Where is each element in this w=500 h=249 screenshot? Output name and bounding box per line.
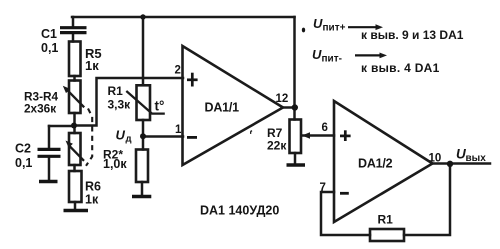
svg-text:3,3к: 3,3к bbox=[108, 97, 132, 111]
svg-text:0,1: 0,1 bbox=[41, 41, 58, 55]
svg-text:DA1/2: DA1/2 bbox=[358, 157, 393, 171]
svg-text:22к: 22к bbox=[267, 139, 287, 153]
svg-text:к выв. 4 DA1: к выв. 4 DA1 bbox=[361, 61, 440, 75]
svg-text:7: 7 bbox=[320, 182, 326, 194]
svg-text:0,1: 0,1 bbox=[15, 156, 32, 170]
svg-text:6: 6 bbox=[322, 122, 328, 134]
svg-text:2x36к: 2x36к bbox=[24, 102, 56, 116]
svg-text:R6: R6 bbox=[85, 179, 101, 193]
svg-text:U: U bbox=[116, 128, 126, 143]
svg-text:2: 2 bbox=[175, 65, 181, 77]
svg-text:д: д bbox=[126, 134, 132, 145]
svg-text:C2: C2 bbox=[15, 141, 31, 155]
svg-text:12: 12 bbox=[276, 93, 289, 105]
svg-text:1,0к: 1,0к bbox=[103, 157, 127, 171]
svg-text:1к: 1к bbox=[85, 58, 99, 73]
svg-text:10: 10 bbox=[429, 153, 442, 165]
svg-text:вых: вых bbox=[466, 153, 487, 164]
svg-text:t°: t° bbox=[155, 99, 165, 114]
svg-text:R1: R1 bbox=[378, 213, 394, 227]
svg-text:1: 1 bbox=[175, 124, 182, 136]
svg-text:пит+: пит+ bbox=[323, 22, 346, 33]
svg-text:U: U bbox=[312, 47, 322, 62]
svg-text:к выв. 9 и 13 DA1: к выв. 9 и 13 DA1 bbox=[361, 28, 464, 42]
svg-text:U: U bbox=[313, 16, 323, 31]
svg-text:пит-: пит- bbox=[322, 53, 342, 64]
svg-text:DA1 140УД20: DA1 140УД20 bbox=[200, 203, 279, 217]
svg-text:1к: 1к bbox=[85, 192, 99, 206]
svg-text:DA1/1: DA1/1 bbox=[205, 100, 240, 114]
svg-text:C1: C1 bbox=[41, 27, 57, 41]
svg-text:R1: R1 bbox=[108, 84, 124, 98]
